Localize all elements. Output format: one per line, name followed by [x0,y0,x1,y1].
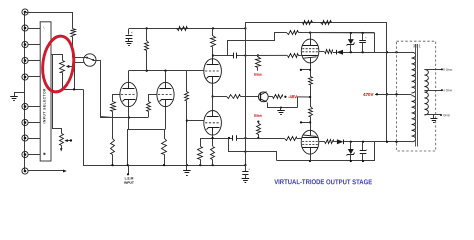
feedback tap lower [229,139,277,161]
junction fb2 [361,51,363,53]
label Bias 2 [254,114,262,118]
zener Z2 body [347,149,355,161]
junction k2 [350,160,352,162]
ground tap wire [15,93,25,97]
junction rail end [244,27,246,29]
wire plate diode [333,52,336,54]
pentode V3 output top [301,39,319,63]
grid network wire [100,117,148,119]
svg-text:+: + [365,36,367,40]
junction C2 out [244,54,246,56]
resistor R3 driver [211,28,216,60]
label 470V [363,92,373,97]
svg-text:INPUT SELECTOR: INPUT SELECTOR [42,88,46,124]
wire V4 plate out [319,141,325,143]
input jack J3 [22,41,28,47]
junction C3 out [244,137,246,139]
cathode bus lower [277,160,374,162]
junction column lower [309,121,311,123]
wire V2a cathode mid [212,83,214,96]
junction driver top [212,54,214,56]
junction box edge top [395,51,397,53]
ground (C1) [125,42,133,46]
junction gnd tap [440,114,442,116]
potentiometer VR2 [60,134,64,146]
wire V1b plate up [165,71,167,83]
label 8 Ohm [443,68,453,72]
wire connector output [94,61,113,118]
wire fb top [351,52,412,54]
resistor Rp plate [145,28,149,70]
zener Z2 [350,142,352,149]
svg-text:Bias: Bias [254,73,262,77]
wire V2b cathode [212,135,214,146]
wire jack4 to selector [28,60,40,62]
wire fb bottom [351,141,412,143]
junction column cathode [309,69,311,71]
cathode out wire [200,138,233,140]
resistor R12 [309,77,313,85]
resistor R2 rail [177,27,188,31]
resistor R19 [325,140,334,144]
wire V3 grid [245,54,287,56]
resistor R1 [71,29,76,37]
wire secondary gnd [425,114,441,116]
signal ground rail [84,90,246,166]
label 36:1 [413,43,422,48]
wire R14 to V3 [298,55,301,57]
svg-text:+: + [248,167,250,171]
wire V1b cathode [165,107,167,130]
junction mid [211,95,213,97]
junction rail x186.9 [186,164,188,166]
transistor Q1 [258,92,268,103]
ground (bias cap) [242,179,250,183]
transformer secondary [424,69,428,115]
supply rail wire [129,28,245,30]
potentiometer VR1 [60,61,65,73]
wire wiper drop [74,62,76,89]
junction 470V start [376,93,378,95]
junction plate bus b [164,70,166,72]
junction fb tap [228,137,230,139]
junction rail x212.6 [211,164,213,166]
junction grid leak [186,119,188,121]
junction cathode wire [211,137,213,139]
junction box edge mid [395,93,397,95]
junction k3 [362,160,364,162]
triode V1b [157,82,174,106]
svg-text:4 Ohm: 4 Ohm [443,88,453,92]
junction z2 [361,32,363,34]
svg-text:GND: GND [443,113,451,117]
wire V3 g2 lead [310,33,312,39]
resistor R8 base feed [213,95,259,99]
svg-text:-48V: -48V [288,94,297,99]
resistor Rk2 tail [162,129,167,165]
resistor Ra [198,139,203,166]
junction fb5 [362,141,364,143]
wire Q1 emitter return [268,103,298,108]
resistor R14 grid stop [288,54,299,58]
pentode V4 output bottom [301,130,319,154]
resistor R11 [273,95,283,99]
stub lower [300,121,310,123]
wire jack6 to selector [28,106,40,108]
svg-text:Bias: Bias [254,114,262,118]
input jack J4 [22,57,28,63]
junction fb [244,150,246,152]
resistor R18 grid stop [285,137,297,141]
cathode link wire [128,130,166,166]
capacitor C5 [359,33,367,52]
wire V2a grid [187,70,205,72]
pot VR1 wiper arrow [66,65,75,68]
input jack J5 [22,74,28,80]
column wire lower [310,117,312,131]
wire connector upper lead [72,57,87,59]
capacitor C1 decoupling [126,29,133,42]
junction rail x112.5 [111,164,113,166]
junction bias bottom [257,137,259,139]
svg-text:INPUT: INPUT [124,181,134,185]
junction fb1 [350,51,352,53]
wire V4 top lead [309,130,311,132]
junction column 48V [309,96,311,98]
svg-text:L.E.M: L.E.M [125,176,134,180]
input selector block U1 [40,22,51,161]
zener Z1 [347,33,355,52]
capacitor C3 [233,135,237,140]
capacitor C6 [360,142,368,161]
svg-text:8 Ohm: 8 Ohm [443,68,453,72]
wire plate diode 2 [333,141,337,143]
wire jack8 to selector [28,138,40,140]
label -48V [288,94,297,99]
wire R1 to connector [72,37,74,58]
diode D1 [336,50,350,55]
resistor Rk1 tail [111,118,115,166]
ground (Q1) [277,108,285,115]
input jack J9 [22,151,28,157]
capacitor C2 [234,53,237,58]
transformer box [397,41,436,151]
column wire mid [310,85,312,107]
input jack J1 [22,9,28,15]
junction bias rail bottom [244,164,246,166]
wire Q1 out [268,96,272,98]
triode V1a [120,82,137,106]
resistor R16 [303,21,313,25]
wire V1a cathode [128,107,130,130]
svg-text:VIRTUAL-TRIODE OUTPUT STAGE: VIRTUAL-TRIODE OUTPUT STAGE [274,179,372,186]
input jack bus wire [24,12,26,171]
wire 470V [375,94,412,96]
input jack J10 [22,168,28,174]
junction cathode cross [128,116,130,118]
junction rail x200.3 [199,164,201,166]
junction bias top [257,54,259,56]
transformer primary bottom [412,96,416,142]
junction rail x127.7 [127,164,129,166]
wire screen corner [374,33,376,52]
column wire upper [310,63,312,77]
resistor Rb [211,147,215,166]
wire pot bottom [63,73,84,90]
transformer core [416,44,418,147]
selector label R [43,153,45,155]
wire jack1 top rail [25,13,73,29]
label Bias 1 [254,73,262,77]
grid leak chain [185,71,189,165]
resistor R17 [321,21,332,25]
wire V4 grid [297,138,301,140]
wire connector lower lead [74,62,84,64]
diode D2 [337,139,351,144]
wire jack2 to selector [28,28,40,30]
junction emitter gnd [280,107,282,109]
junction tap1 [441,68,443,70]
input jack J6 [22,103,28,109]
junction rail driver [212,27,214,29]
junction fb4 [350,141,352,143]
wire V1a plate up [128,71,130,83]
junction plate bus a [146,70,148,72]
wire V4 cathode [310,154,312,161]
resistor Rg1 [111,95,121,118]
ground (main) [183,165,191,175]
junction fb3 [386,51,388,53]
wire screen to grid node [298,32,374,34]
wire jack5 to selector [28,76,40,78]
wire mid to V2b [212,97,214,111]
wire V3 plate out [319,51,324,53]
triode V2b [204,111,222,136]
wire jack7 to selector [28,122,40,124]
label L.E.M INPUT [124,176,134,184]
resistor Rg2 [147,95,157,118]
junction screen g2 [309,32,311,34]
screen tap wire [228,33,287,56]
resistor R13 [309,107,313,117]
wire 48V down [297,97,299,108]
long vertical bias rail [245,22,247,165]
connector jack CN1 [84,54,96,66]
wire 48V to column [298,96,311,98]
input jack J7 [22,119,28,125]
junction z1 [350,32,352,34]
wire jack9 to selector [28,154,40,156]
title VIRTUAL-TRIODE OUTPUT STAGE [274,179,372,186]
ground (input bus) [10,97,18,101]
selector label L [43,26,45,29]
svg-text:+: + [366,148,368,152]
wire tap 8ohm [424,69,442,71]
feedback vertical [386,22,388,142]
junction pot bottom [73,88,75,90]
label GND [443,113,451,117]
wire tap 4ohm [424,90,442,92]
screen bus wire [310,32,374,34]
junction 470V [386,93,388,95]
resistor R10 bias [257,121,261,139]
label 4 Ohm [443,88,453,92]
transformer primary top [412,52,416,93]
wire jack10 arrow [29,170,67,173]
svg-text:+: + [131,31,133,35]
wire fb corner lower [374,142,376,161]
pot VR2 wiper arrow [64,139,72,142]
svg-text:470V: 470V [363,92,373,97]
wire selector to pot [51,55,63,61]
triode V2a [204,59,222,84]
wire jack3 to selector [28,44,40,46]
junction tap2 [441,89,443,91]
junction box edge bottom [395,141,397,143]
junction k1 [309,160,311,162]
wire plate bus [129,70,187,72]
pot VR2 bottom arrow [60,146,63,152]
resistor R7 screen [287,31,299,35]
junction rail Rp [146,27,148,29]
stub upper [300,69,310,71]
stub LEM input [127,165,129,175]
plate supply wire top [245,22,387,24]
wire V2b grid [187,120,205,122]
capacitor C4 bias [242,165,250,178]
junction fb6 [386,141,388,143]
wire block right vertical [53,55,62,134]
resistor R15 [325,50,333,54]
input jack J8 [22,135,28,141]
ground (secondary) [430,115,437,123]
coupling wire C2 [213,55,245,57]
junction 48V [284,96,286,98]
wire grid feed [236,138,285,140]
resistor R9 bias [256,55,261,70]
selector text INPUT SELECTOR [42,88,46,124]
input jack J2 [22,25,28,31]
junction rail x164 [163,164,165,166]
annotation ellipse (red) [40,34,77,93]
